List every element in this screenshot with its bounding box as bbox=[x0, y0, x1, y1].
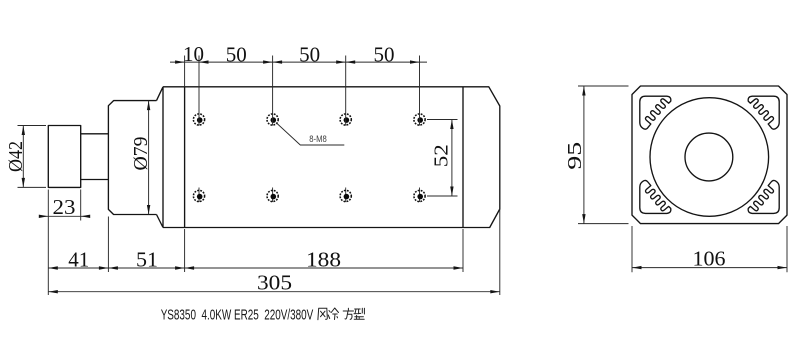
arrows 106 bbox=[632, 266, 642, 269]
tapped hole M8 r1c2 bbox=[267, 114, 278, 125]
tapped hole M8 r1c4 bbox=[414, 114, 425, 125]
tapped hole M8 r1c1 bbox=[193, 114, 204, 125]
title hanzi fang bbox=[343, 308, 353, 319]
svg-text:51: 51 bbox=[136, 247, 158, 271]
dim line 305 bbox=[48, 291, 500, 293]
ext line x=48.3 bbox=[47, 190, 49, 296]
dim line 23 bbox=[40, 215, 90, 217]
ext lines 106 bbox=[631, 226, 633, 272]
ext line x=108.4 bbox=[107, 217, 109, 273]
svg-text:106: 106 bbox=[693, 246, 726, 270]
svg-text:8-M8: 8-M8 bbox=[309, 134, 327, 145]
svg-text:50: 50 bbox=[374, 43, 395, 67]
svg-text:305: 305 bbox=[257, 271, 292, 295]
body outer circle bbox=[650, 98, 769, 217]
nose-to-body transition chamfers and seam bbox=[157, 87, 164, 228]
extension line at x=184.6 (front cap) bbox=[184, 56, 186, 87]
ext lines Ø42 bbox=[18, 125, 47, 127]
arrows Ø79 bbox=[147, 101, 150, 111]
front end-cap seam line bbox=[184, 87, 186, 228]
title hanzi feng bbox=[318, 308, 327, 320]
top dimension line bbox=[170, 61, 427, 63]
dim line 52 bbox=[451, 120, 453, 197]
tapped hole M8 r2c3 bbox=[340, 190, 351, 201]
dim line 95 bbox=[583, 86, 585, 224]
arrow at 199 pointing left bbox=[199, 60, 209, 63]
extension line to hole x=199.0 bbox=[198, 56, 200, 126]
ext line x=184.6 below bbox=[184, 229, 186, 272]
arrows at 345.7 bbox=[336, 60, 346, 63]
svg-text:YS8350 4.0KW ER25 220V/380V: YS8350 4.0KW ER25 220V/380V bbox=[161, 307, 314, 324]
arrow 10 left outside bbox=[175, 60, 185, 63]
extension line to hole x=272.6 bbox=[272, 56, 274, 126]
tapped hole M8 r2c4 bbox=[414, 190, 425, 201]
svg-text:50: 50 bbox=[226, 43, 247, 67]
spindle shaft end (Ø42 collet nut block) bbox=[48, 126, 80, 188]
dim line 41-51-188 bbox=[48, 267, 463, 269]
main body outline with rear cap chamfers bbox=[163, 87, 500, 228]
dim line 106 bbox=[632, 267, 787, 269]
dim line Ø42 bbox=[22, 126, 24, 188]
hole centerline r2c4 bbox=[419, 188, 421, 203]
arrows at 272.6 bbox=[263, 60, 273, 63]
spindle bore circle bbox=[685, 133, 733, 181]
dim line Ø79 bbox=[148, 101, 150, 215]
svg-text:52: 52 bbox=[431, 144, 453, 167]
arrows 305 bbox=[48, 290, 58, 293]
tapped hole M8 r2c2 bbox=[267, 190, 278, 201]
ext lines 52 bbox=[427, 119, 458, 121]
spindle nose (Ø79 section) bbox=[108, 101, 156, 215]
shaft neck between nut and nose bbox=[81, 134, 109, 180]
arrows 52 bbox=[450, 120, 453, 130]
arrows 51 bbox=[108, 266, 118, 269]
extension line to hole x=419.5 bbox=[419, 56, 421, 126]
corner slot top-left bbox=[640, 96, 671, 129]
hole centerline r2c2 bbox=[272, 188, 274, 203]
hole centerline r2c3 bbox=[345, 188, 347, 203]
ext lines 95 bbox=[578, 85, 629, 87]
corner slot top-right bbox=[748, 96, 779, 129]
extension line to hole x=345.7 bbox=[345, 56, 347, 126]
title hanzi xing bbox=[354, 308, 364, 319]
svg-text:188: 188 bbox=[306, 247, 341, 271]
leader line for 8-M8 bbox=[277, 123, 345, 145]
arrow at 419.5 pointing right bbox=[410, 60, 420, 63]
hole centerline r2c1 bbox=[198, 188, 200, 203]
arrows 41 bbox=[48, 266, 58, 269]
svg-text:50: 50 bbox=[299, 43, 320, 67]
arrows 95 bbox=[582, 86, 585, 96]
arrows Ø42 bbox=[22, 126, 25, 136]
ext line x=463 below bbox=[462, 229, 464, 272]
end view square body with chamfered corners bbox=[632, 86, 787, 224]
ext line 23 right bbox=[80, 190, 82, 221]
rear face seam line bbox=[462, 87, 464, 228]
arrows 188 bbox=[185, 266, 195, 269]
tapped hole M8 r1c3 bbox=[340, 114, 351, 125]
svg-text:10: 10 bbox=[183, 42, 204, 66]
svg-text:Ø79: Ø79 bbox=[130, 137, 152, 171]
arrows 23 outside bbox=[39, 215, 49, 218]
svg-text:23: 23 bbox=[53, 195, 76, 219]
svg-text:41: 41 bbox=[68, 247, 89, 271]
svg-text:95: 95 bbox=[564, 142, 586, 170]
ext line x=499.8 (cap right) bbox=[499, 106, 501, 295]
corner slot bottom-left bbox=[640, 180, 671, 213]
tapped hole M8 r2c1 bbox=[193, 190, 204, 201]
corner slot bottom-right bbox=[748, 180, 779, 213]
svg-text:Ø42: Ø42 bbox=[5, 141, 27, 172]
title hanzi leng bbox=[328, 308, 338, 320]
